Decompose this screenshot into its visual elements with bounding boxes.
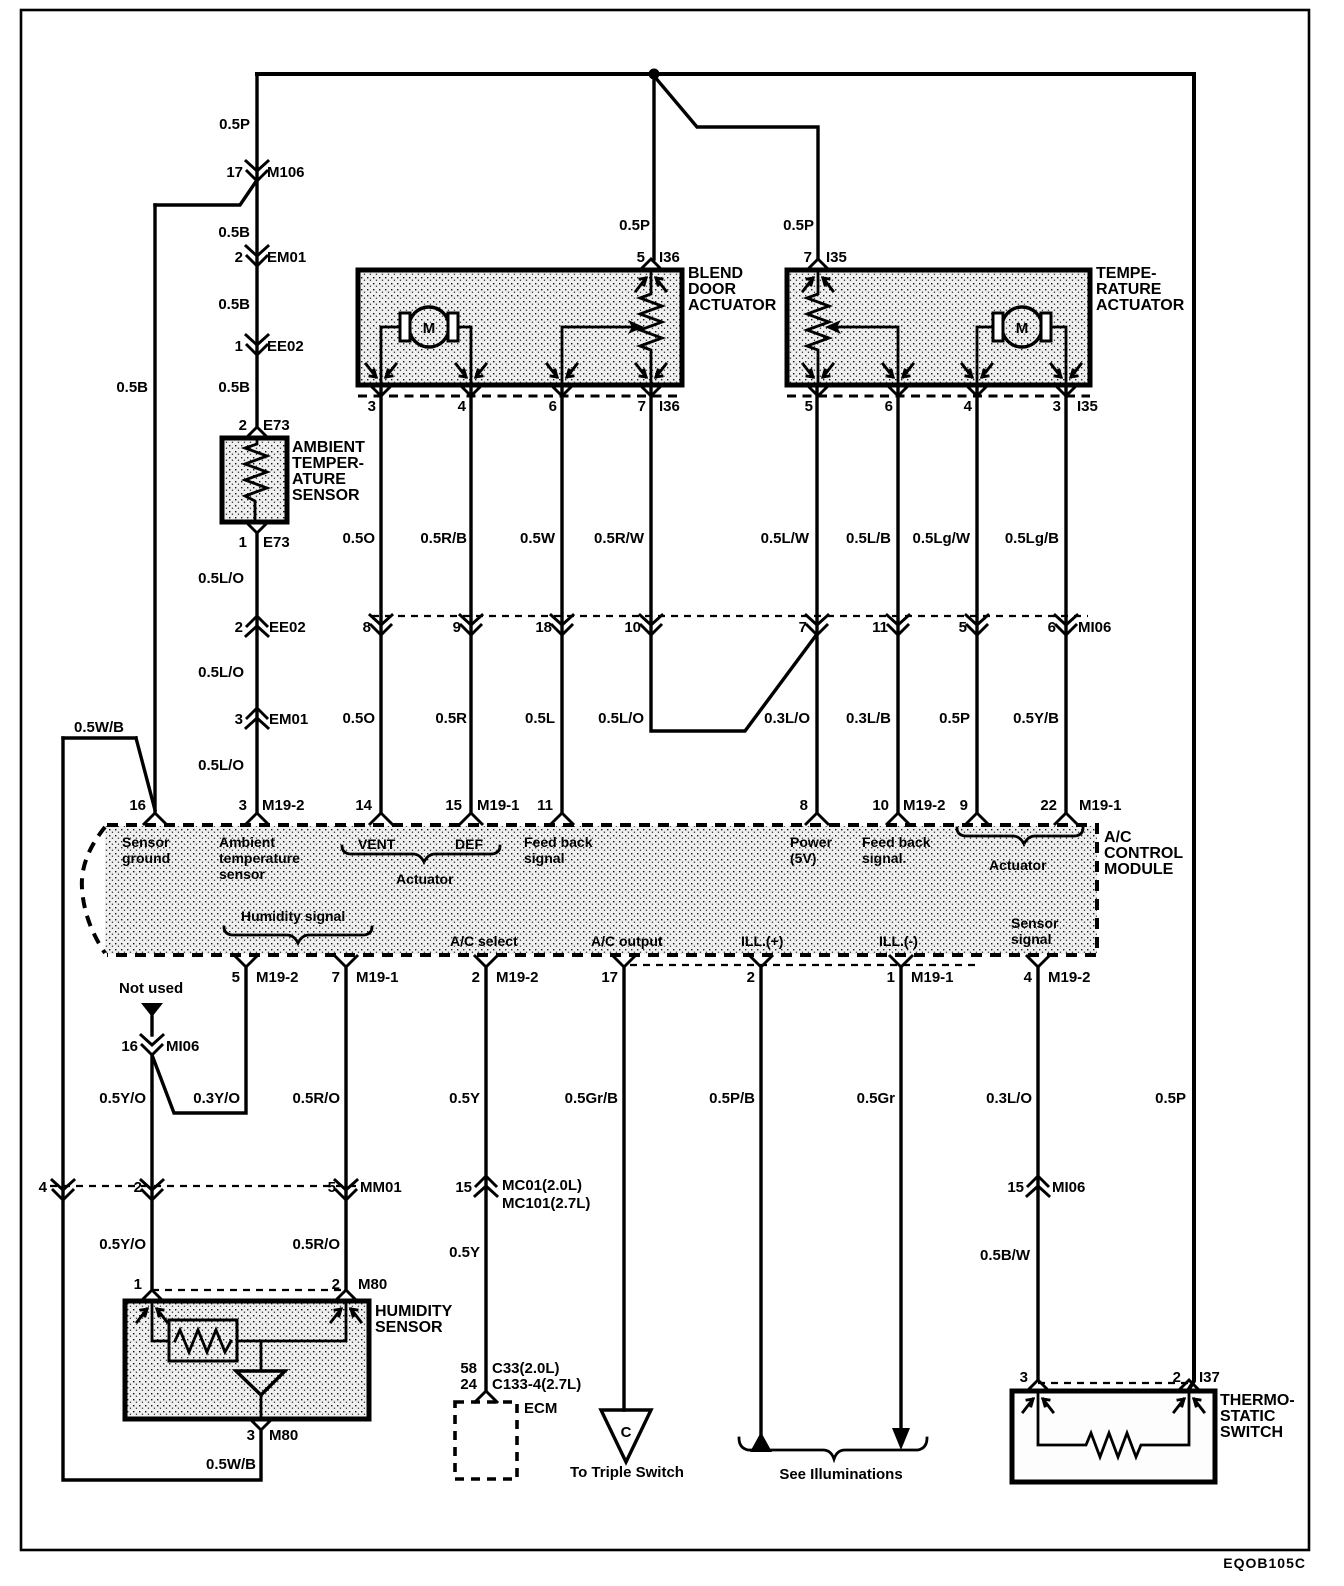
svg-text:I35: I35 [826,249,847,266]
svg-text:0.5Lg/W: 0.5Lg/W [912,530,970,547]
svg-text:MI06: MI06 [166,1038,199,1055]
svg-text:10: 10 [872,797,889,814]
svg-text:ground: ground [122,850,170,866]
svg-text:2: 2 [332,1276,340,1293]
pin 1 E73 [246,522,268,533]
module pin 8 [806,813,828,824]
resistor: humidity element [169,1320,237,1361]
connector pin 10 [640,615,662,635]
svg-text:M: M [1016,320,1029,337]
A/C control module box [105,826,1097,954]
svg-text:DEF: DEF [455,836,483,852]
svg-text:3: 3 [1020,1369,1028,1386]
svg-text:1: 1 [887,969,895,986]
svg-text:(5V): (5V) [790,850,816,866]
module pin 17 bottom [613,956,635,967]
svg-text:HUMIDITY: HUMIDITY [375,1303,453,1320]
svg-text:signal: signal [1011,931,1051,947]
wire: left column 0.5P/0.5B down to ambient sensor [255,74,258,427]
svg-text:ILL.(-): ILL.(-) [879,933,918,949]
svg-text:0.5Y: 0.5Y [449,1090,480,1107]
wire: 0.5L/O from sensor to module pin3 [255,533,258,813]
svg-text:MI06: MI06 [1052,1179,1085,1196]
svg-text:M19-1: M19-1 [911,969,954,986]
triple switch triangle [601,1410,651,1462]
svg-text:signal: signal [524,850,564,866]
svg-text:3: 3 [247,1427,255,1444]
svg-text:11: 11 [872,619,888,636]
svg-text:ATURE: ATURE [292,471,346,488]
svg-text:STATIC: STATIC [1220,1408,1276,1425]
wire: 0.5R/B pin4 to module pin15 [469,385,472,813]
svg-text:0.5B: 0.5B [218,379,250,396]
svg-text:8: 8 [800,797,808,814]
svg-text:C: C [621,1424,632,1441]
svg-text:M19-2: M19-2 [262,797,305,814]
connector 16 MI06 [141,1035,163,1055]
svg-text:0.5Y: 0.5Y [449,1244,480,1261]
wire: motor to pin4 [458,327,471,385]
module pin 11 [551,813,573,824]
motor M2 in temperature actuator [1002,307,1042,347]
module pin 10 M19-2 [887,813,909,824]
module pin 14 [370,813,392,824]
svg-text:SENSOR: SENSOR [292,487,360,504]
svg-text:0.5P: 0.5P [939,710,970,727]
wire: 0.3Y/O module pin5 to MI06 pin16 [152,967,246,1113]
svg-text:5: 5 [232,969,240,986]
svg-text:EQOB105C: EQOB105C [1223,1555,1306,1571]
svg-text:M19-2: M19-2 [496,969,539,986]
svg-text:M106: M106 [267,164,305,181]
svg-text:M19-1: M19-1 [477,797,520,814]
pin 3 M80 bottom [250,1419,272,1430]
svg-text:3: 3 [239,797,247,814]
svg-text:M19-2: M19-2 [1048,969,1091,986]
wire: not used stub [150,1017,153,1035]
svg-text:EM01: EM01 [267,249,306,266]
motor M1 in blend door actuator [409,307,449,347]
svg-text:0.5O: 0.5O [342,710,375,727]
svg-text:0.5R/O: 0.5R/O [292,1236,340,1253]
pin 5 I36 top [640,259,662,270]
pin 4 bottom [460,385,482,396]
wire: 0.5W/B bottom run [63,738,261,1480]
svg-text:A/C select: A/C select [450,933,518,949]
svg-text:9: 9 [453,619,461,636]
svg-text:DOOR: DOOR [688,281,736,298]
dashed line under module pins [630,964,975,966]
wire: 0.5W pin6 to module pin11 [560,385,563,813]
ambient temperature sensor box [222,438,287,522]
svg-text:ACTUATOR: ACTUATOR [688,297,777,314]
wire: resistor to pin2 [237,1301,346,1341]
svg-text:I35: I35 [1077,398,1098,415]
svg-text:MC01(2.0L): MC01(2.0L) [502,1177,582,1194]
wire: motor to pin4 [977,327,993,385]
svg-text:22: 22 [1040,797,1057,814]
svg-text:BLEND: BLEND [688,265,743,282]
svg-text:5: 5 [959,619,967,636]
svg-text:0.5L/O: 0.5L/O [198,757,244,774]
connector 15 MI06 right [1027,1176,1049,1196]
connector 2 EM01 [246,246,268,266]
svg-text:0.5L/W: 0.5L/W [761,530,810,547]
svg-text:1: 1 [239,534,247,551]
module pin 9 [966,813,988,824]
svg-text:CONTROL: CONTROL [1104,845,1183,862]
svg-text:0.5P: 0.5P [219,116,250,133]
module pin 2 M19-2 bottom [475,956,497,967]
svg-text:0.5Y/O: 0.5Y/O [99,1236,146,1253]
svg-text:3: 3 [235,711,243,728]
wire: wiper from pin6 [836,327,898,385]
pin 3 [1027,1380,1049,1391]
svg-text:7: 7 [804,249,812,266]
svg-text:Humidity signal: Humidity signal [241,908,345,924]
svg-text:18: 18 [535,619,552,636]
svg-text:0.5W/B: 0.5W/B [206,1456,256,1473]
svg-text:ACTUATOR: ACTUATOR [1096,297,1185,314]
svg-text:MODULE: MODULE [1104,861,1174,878]
resistor: blend position sensor [640,270,662,385]
svg-text:M80: M80 [358,1276,387,1293]
svg-text:0.5L/O: 0.5L/O [598,710,644,727]
svg-text:6: 6 [549,398,557,415]
wire: 0.5L/B temp pin6 to module pin10 [896,385,899,813]
svg-text:ILL.(+): ILL.(+) [741,933,783,949]
svg-text:6: 6 [885,398,893,415]
svg-text:58: 58 [460,1360,477,1377]
svg-text:0.5Gr/B: 0.5Gr/B [565,1090,619,1107]
svg-text:1: 1 [134,1276,142,1293]
connector 17 M106 [246,161,268,181]
module pin 1 M19-1 bottom [890,956,912,967]
wire: 0.5Gr/B module pin17 to triple switch [622,967,625,1410]
svg-text:E73: E73 [263,534,290,551]
wire: 0.5Y module pin2 to ECM [484,967,487,1391]
pin 7 I36 bottom [640,385,662,396]
svg-text:See Illuminations: See Illuminations [779,1466,902,1483]
svg-text:1: 1 [235,338,243,355]
pin 6 bottom [887,385,909,396]
pin 2 E73 [246,427,268,438]
wire: branch junction diagonal to I35 pin7 [654,76,818,259]
svg-text:0.5Lg/B: 0.5Lg/B [1005,530,1059,547]
connector pin 5 MM01 [335,1180,357,1200]
pin 2 M80 [335,1290,357,1301]
svg-text:0.5L/B: 0.5L/B [846,530,891,547]
wire: 0.5Y/O below MI06 [150,1055,153,1290]
svg-text:EE02: EE02 [267,338,304,355]
svg-text:Feed back: Feed back [524,834,593,850]
svg-text:M: M [423,320,436,337]
pin 1 [141,1290,163,1301]
pin 2 I37 [1178,1380,1200,1391]
svg-text:0.5P: 0.5P [1155,1090,1186,1107]
connector 15 MC01 [475,1176,497,1196]
svg-text:To Triple Switch: To Triple Switch [570,1464,684,1481]
svg-text:0.5O: 0.5O [342,530,375,547]
svg-text:4: 4 [39,1179,48,1196]
svg-text:3: 3 [368,398,376,415]
svg-text:Feed back: Feed back [862,834,931,850]
svg-text:M19-1: M19-1 [356,969,399,986]
svg-text:4: 4 [1024,969,1033,986]
svg-text:0.5Y/B: 0.5Y/B [1013,710,1059,727]
pin 4 bottom [966,385,988,396]
svg-text:Not used: Not used [119,980,183,997]
svg-text:MM01: MM01 [360,1179,402,1196]
svg-text:sensor: sensor [219,866,265,882]
svg-text:17: 17 [601,969,618,986]
svg-text:2: 2 [235,619,243,636]
svg-text:24: 24 [460,1376,477,1393]
svg-text:VENT: VENT [358,836,396,852]
svg-text:Actuator: Actuator [989,857,1047,873]
svg-text:I37: I37 [1199,1369,1220,1386]
pin 3 bottom [370,385,392,396]
wire: pin1 to resistor [152,1301,169,1341]
svg-text:7: 7 [799,619,807,636]
wire: wiper from pin6 [562,327,633,385]
svg-text:0.5R: 0.5R [435,710,467,727]
svg-text:0.5R/W: 0.5R/W [594,530,645,547]
module pin 3 M19-2 [246,813,268,824]
module pin 16 [144,813,166,824]
svg-text:7: 7 [638,398,646,415]
svg-text:EE02: EE02 [269,619,306,636]
svg-text:7: 7 [332,969,340,986]
module pin 7 M19-1 bottom [335,956,357,967]
internal ground triangle [236,1371,285,1395]
svg-text:SENSOR: SENSOR [375,1319,443,1336]
wire: 0.3L/O module pin4 to thermo switch [1036,967,1039,1380]
svg-text:4: 4 [964,398,973,415]
connector pin 7 [806,615,828,635]
svg-text:0.5P: 0.5P [619,217,650,234]
svg-text:16: 16 [129,797,146,814]
svg-text:0.5W/B: 0.5W/B [74,719,124,736]
resistor: temp position sensor [807,270,829,385]
svg-text:M19-2: M19-2 [256,969,299,986]
svg-text:16: 16 [121,1038,138,1055]
resistor: ambient temp sensor element [245,438,267,522]
svg-text:0.5P: 0.5P [783,217,814,234]
svg-text:TEMPE-: TEMPE- [1096,265,1156,282]
svg-text:MI06: MI06 [1078,619,1111,636]
module pin 15 M19-1 [460,813,482,824]
connector pin 6 MI06 [1055,615,1077,635]
svg-text:0.3L/O: 0.3L/O [764,710,810,727]
svg-text:0.3L/O: 0.3L/O [986,1090,1032,1107]
svg-text:9: 9 [960,797,968,814]
svg-text:0.5B: 0.5B [218,224,250,241]
svg-text:ECM: ECM [524,1400,557,1417]
svg-text:MC101(2.7L): MC101(2.7L) [502,1195,590,1212]
pin 3 I35 bottom [1055,385,1077,396]
svg-text:15: 15 [445,797,462,814]
connector pin 4 [52,1180,74,1200]
svg-text:Actuator: Actuator [396,871,454,887]
svg-text:0.5B: 0.5B [116,379,148,396]
svg-text:TEMPER-: TEMPER- [292,455,364,472]
svg-text:0.5P/B: 0.5P/B [709,1090,755,1107]
svg-text:E73: E73 [263,417,290,434]
module pin 22 M19-1 [1055,813,1077,824]
pin 6 bottom [551,385,573,396]
ILL(-) arrow down [892,1428,910,1450]
wire: right bus down to thermostatic switch [1189,74,1194,1389]
wire: 0.5P/B ILL(+) [759,967,762,1434]
svg-text:0.5W: 0.5W [520,530,556,547]
svg-text:AMBIENT: AMBIENT [292,439,365,456]
svg-text:2: 2 [134,1179,142,1196]
connector 2 EE02 [246,616,268,636]
temperature actuator box [787,270,1090,385]
svg-text:6: 6 [1048,619,1056,636]
svg-text:0.5L: 0.5L [525,710,555,727]
wire: 0.5Gr ILL(-) [899,967,902,1428]
module pin 2 ILL+ bottom [750,956,772,967]
svg-text:EM01: EM01 [269,711,308,728]
svg-text:THERMO-: THERMO- [1220,1392,1295,1409]
svg-text:2: 2 [239,417,247,434]
svg-text:2: 2 [747,969,755,986]
pin 5 bottom [807,385,829,396]
wire: 0.5W/B joining sensor ground [63,736,136,739]
svg-text:0.5R/O: 0.5R/O [292,1090,340,1107]
wire: 0.5Lg/B temp pin3 to module pin22 [1064,385,1067,813]
svg-text:A/C: A/C [1104,829,1132,846]
svg-text:I36: I36 [659,249,680,266]
svg-text:signal.: signal. [862,850,906,866]
svg-text:2: 2 [235,249,243,266]
svg-text:10: 10 [624,619,641,636]
svg-text:0.5R/B: 0.5R/B [420,530,467,547]
svg-text:SWITCH: SWITCH [1220,1424,1283,1441]
svg-text:0.3L/B: 0.3L/B [846,710,891,727]
pin 7 I35 top [807,259,829,270]
svg-text:A/C output: A/C output [591,933,663,949]
wire: motor to pin3 [381,327,400,385]
wire: 0.5L/W temp pin5 to module pin8 [815,385,818,813]
svg-text:temperature: temperature [219,850,300,866]
wire: 0.5Lg/W temp pin4 to module pin9 [975,385,978,813]
wire: 0.5R/W pin7 jog to connector pin7 [651,385,817,731]
connector pin 5 [966,615,988,635]
svg-text:5: 5 [328,1179,336,1196]
svg-text:0.5Y/O: 0.5Y/O [99,1090,146,1107]
svg-text:0.5B/W: 0.5B/W [980,1247,1031,1264]
wire: 0.5O pin3 to module pin14 [379,385,382,813]
in-line connector row MM01 [50,1185,362,1187]
svg-text:0.3Y/O: 0.3Y/O [193,1090,240,1107]
svg-text:0.5L/O: 0.5L/O [198,570,244,587]
in-line connector row dashed line [372,615,1088,617]
wire: triangle to pin3 [260,1395,263,1419]
svg-text:Sensor: Sensor [1011,915,1059,931]
wire: branch to internal ground [260,1341,263,1371]
blend door actuator box [358,270,682,385]
svg-text:2: 2 [472,969,480,986]
dashed connector line under temp box [787,395,1090,398]
svg-text:Sensor: Sensor [122,834,170,850]
svg-text:5: 5 [637,249,645,266]
svg-text:Power: Power [790,834,833,850]
svg-text:14: 14 [355,797,372,814]
svg-text:0.5L/O: 0.5L/O [198,664,244,681]
thermostatic switch box [1038,1382,1189,1384]
module pin 5 M19-2 bottom [235,956,257,967]
connector pin 9 [460,615,482,635]
svg-text:0.5Gr: 0.5Gr [857,1090,896,1107]
resistor: thermo element [1038,1391,1189,1457]
humidity sensor box [152,1289,346,1291]
wire: 0.5R/O module pin7 to humidity pin2 [344,967,347,1290]
connector pin 2 [141,1180,163,1200]
connector pin 8 [370,615,392,635]
svg-text:2: 2 [1173,1369,1181,1386]
svg-text:11: 11 [537,797,553,814]
svg-text:15: 15 [1007,1179,1024,1196]
svg-text:I36: I36 [659,398,680,415]
wire: motor to pin3 [1051,327,1066,385]
node: junction on top bus [649,69,660,80]
svg-text:4: 4 [458,398,467,415]
wire: branch junction to I36 pin5 [652,74,655,259]
svg-text:RATURE: RATURE [1096,281,1162,298]
svg-text:3: 3 [1053,398,1061,415]
svg-text:0.5B: 0.5B [218,296,250,313]
module pin 4 M19-2 bottom [1027,956,1049,967]
wire: jog from M106 to sensor-ground line [155,180,257,205]
svg-text:Ambient: Ambient [219,834,275,850]
svg-text:8: 8 [363,619,371,636]
connector 3 EM01 [246,708,268,728]
connector pin 18 [551,615,573,635]
connector 1 EE02 [246,335,268,355]
ECM box [455,1402,517,1479]
svg-text:15: 15 [455,1179,472,1196]
connector pin 11 [887,615,909,635]
svg-text:M80: M80 [269,1427,298,1444]
svg-text:C33(2.0L): C33(2.0L) [492,1360,560,1377]
wire: sensor ground 0.5B down to module pin16 [153,205,156,813]
ILL(+) arrow up [750,1432,772,1452]
dashed connector line under blend box [358,395,682,398]
see illuminations brace [739,1438,927,1459]
wire: top power bus 0.5P [257,72,1194,76]
svg-text:C133-4(2.7L): C133-4(2.7L) [492,1376,581,1393]
svg-text:M19-1: M19-1 [1079,797,1122,814]
svg-text:M19-2: M19-2 [903,797,946,814]
svg-text:5: 5 [805,398,813,415]
svg-text:17: 17 [226,164,243,181]
